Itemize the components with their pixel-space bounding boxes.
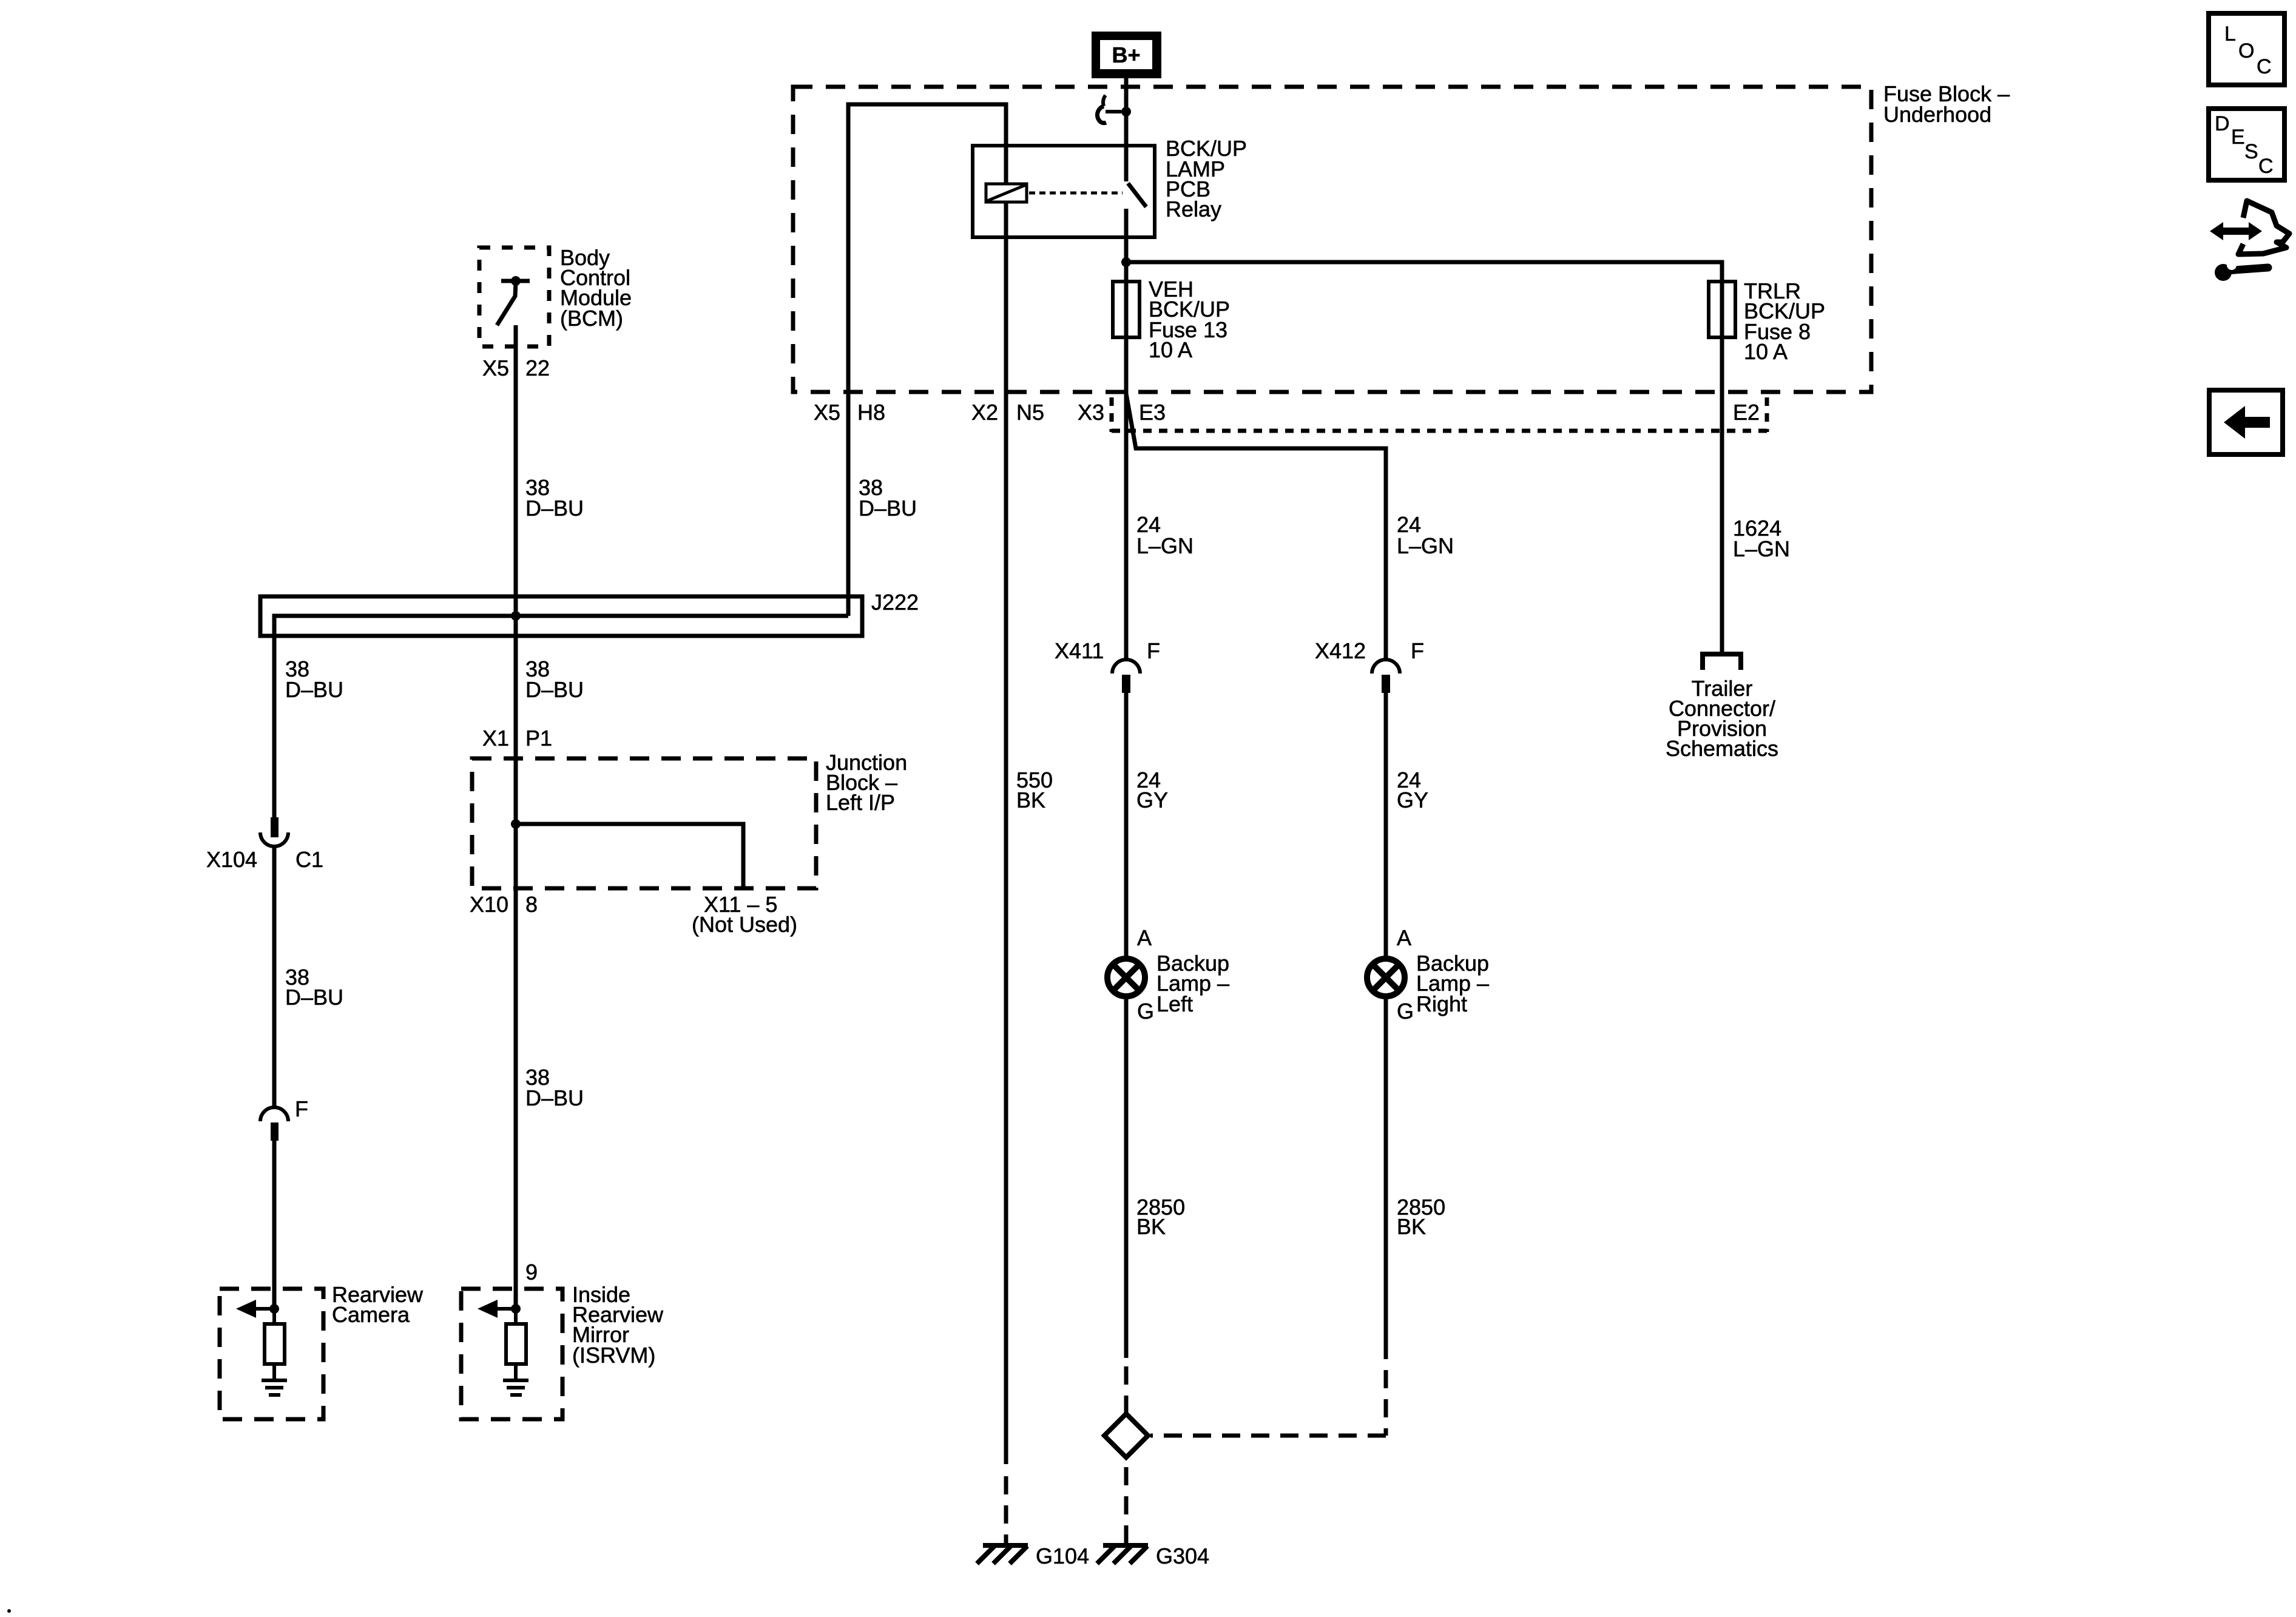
svg-text:Left: Left	[1156, 991, 1193, 1016]
svg-text:C: C	[2257, 55, 2272, 78]
junction block - left I/P dashed box	[472, 758, 816, 888]
svg-text:F: F	[1411, 638, 1424, 663]
svg-text:X5: X5	[814, 400, 840, 425]
fusible link curl	[1097, 95, 1121, 123]
svg-text:B+: B+	[1112, 42, 1140, 67]
relay linkage dashed	[1029, 192, 1123, 195]
label 2850 BK left	[1136, 1195, 1185, 1239]
dashed wire right lamp to splice	[1150, 1370, 1386, 1436]
dashed wire splice to G304	[1124, 1467, 1129, 1544]
svg-text:E3: E3	[1139, 400, 1166, 425]
svg-text:G104: G104	[1036, 1544, 1089, 1568]
wire junction to TRLR fuse	[1126, 262, 1722, 282]
label Fuse Block - Underhood	[1883, 81, 2010, 127]
svg-text:Relay: Relay	[1166, 197, 1221, 221]
label 1624 L-GN	[1733, 516, 1790, 561]
wire X104 down	[272, 846, 277, 1107]
dotted connector strip	[1112, 397, 1767, 432]
svg-text:8: 8	[525, 892, 538, 917]
svg-text:(Not Used): (Not Used)	[692, 912, 797, 937]
label 38 D-BU left branch	[285, 657, 343, 702]
svg-text:A: A	[1397, 925, 1411, 950]
relay K: BCK/UP LAMP PCB relay box	[973, 146, 1155, 237]
svg-text:GY: GY	[1136, 788, 1168, 812]
svg-text:X1: X1	[482, 726, 509, 751]
camera signal ground	[262, 1380, 287, 1395]
off-page bracket trailer	[1703, 654, 1741, 670]
svg-text:H8: H8	[857, 400, 885, 425]
BCM: body control module dashed box	[479, 248, 549, 346]
connector X104 C1	[260, 817, 288, 846]
junction dot in junction block	[511, 819, 521, 829]
label fuse 13	[1149, 277, 1230, 362]
BCM switch	[497, 276, 530, 325]
svg-text:L–GN: L–GN	[1733, 536, 1790, 561]
wire B+ down to relay	[1124, 78, 1129, 147]
svg-text:E2: E2	[1733, 400, 1760, 425]
label 38 D-BU mirror branch	[525, 1065, 584, 1110]
mirror resistor	[506, 1309, 526, 1380]
svg-text:(BCM): (BCM)	[560, 306, 623, 331]
lamp right: backup lamp - right	[1367, 959, 1405, 996]
label X1 P1	[482, 726, 552, 751]
mirror signal arrow	[478, 1300, 516, 1318]
label rearview camera	[332, 1282, 424, 1327]
battery feed B+	[1092, 32, 1161, 78]
svg-text:9: 9	[525, 1260, 538, 1284]
svg-text:L: L	[2224, 22, 2236, 46]
svg-text:D–BU: D–BU	[285, 985, 343, 1010]
junction dot at B+ node	[1121, 107, 1131, 116]
labels lamp left	[1137, 925, 1229, 1024]
relay switch common	[1124, 147, 1129, 181]
fuse F13 VEH BCK/UP	[1113, 262, 1140, 392]
svg-text:X3: X3	[1078, 400, 1104, 425]
junction dot below relay	[1121, 257, 1131, 267]
ground G304	[1097, 1545, 1148, 1564]
svg-text:BK: BK	[1136, 1214, 1166, 1239]
svg-text:BK: BK	[1016, 788, 1045, 812]
wire J222 center branch down	[514, 616, 518, 824]
svg-text:C1: C1	[295, 847, 323, 872]
label 24 L-GN left	[1136, 512, 1194, 558]
connector X412 F	[1372, 660, 1400, 693]
svg-text:O: O	[2238, 39, 2254, 62]
svg-text:E: E	[2231, 126, 2245, 149]
label X411 F	[1055, 638, 1160, 663]
connector F camera	[260, 1107, 288, 1141]
svg-text:GY: GY	[1397, 788, 1428, 812]
label X10 8	[470, 892, 538, 917]
wire F to camera box	[272, 1141, 277, 1309]
svg-text:X2: X2	[971, 400, 998, 425]
svg-text:Camera: Camera	[332, 1302, 410, 1327]
label fuse 8	[1744, 279, 1825, 364]
camera signal arrow	[236, 1300, 274, 1318]
wire left lamp down	[1124, 998, 1129, 1358]
relay switch arm	[1128, 183, 1146, 207]
svg-text:10 A: 10 A	[1149, 337, 1192, 362]
svg-text:X5: X5	[482, 356, 509, 380]
svg-text:F: F	[1147, 638, 1160, 663]
page artifact dot	[7, 1609, 11, 1613]
connector X411 F	[1112, 660, 1140, 693]
label 38 D-BU below X104	[285, 965, 343, 1010]
icon wrench	[2215, 260, 2268, 281]
svg-text:N5: N5	[1016, 400, 1044, 425]
svg-text:Right: Right	[1416, 991, 1467, 1016]
wire right lamp down	[1384, 998, 1388, 1359]
svg-text:D–BU: D–BU	[285, 677, 343, 702]
inside rearview mirror dashed box	[461, 1289, 562, 1419]
svg-text:X412: X412	[1315, 638, 1366, 663]
label ISRVM	[572, 1282, 664, 1368]
wire fuse8 to trailer connector	[1720, 337, 1724, 654]
mirror internal node dot	[511, 1304, 521, 1314]
label 24 L-GN right	[1397, 512, 1454, 558]
svg-text:X411: X411	[1055, 638, 1104, 663]
svg-text:Underhood: Underhood	[1883, 102, 1991, 127]
fuse block - underhood dashed box	[793, 87, 1871, 392]
dashed wire to splice diamond	[1124, 1366, 1129, 1414]
svg-text:Left I/P: Left I/P	[826, 790, 895, 815]
svg-text:22: 22	[525, 356, 550, 380]
dashed wire to G104	[1004, 1476, 1008, 1544]
label X104 C1	[206, 847, 323, 872]
svg-text:10 A: 10 A	[1744, 339, 1788, 364]
label X5 22	[482, 356, 550, 380]
svg-text:X10: X10	[470, 892, 508, 917]
svg-text:A: A	[1137, 925, 1152, 950]
svg-text:C: C	[2258, 155, 2274, 178]
mirror signal ground	[503, 1380, 528, 1395]
wire X411 to left lamp	[1124, 693, 1129, 957]
svg-text:BK: BK	[1397, 1214, 1426, 1239]
svg-text:D–BU: D–BU	[525, 677, 584, 702]
label X412 F	[1315, 638, 1424, 663]
wire X412 to right lamp	[1384, 693, 1388, 957]
svg-text:G: G	[1397, 999, 1414, 1024]
label BCM	[560, 245, 632, 331]
icon LOC box	[2209, 13, 2284, 85]
label 38 D-BU center branch	[525, 657, 584, 702]
wire junction block branch X11-5	[516, 824, 743, 888]
wire relay coil loop H8	[848, 104, 1006, 616]
svg-text:F: F	[295, 1096, 308, 1121]
wire BCM down to J222	[514, 325, 518, 616]
label 2850 BK right	[1397, 1195, 1445, 1239]
svg-text:X104: X104	[206, 847, 257, 872]
splice diamond	[1104, 1414, 1148, 1457]
wire 550 BK down to G104	[1004, 202, 1008, 1464]
label junction block	[826, 750, 907, 815]
svg-text:D–BU: D–BU	[525, 1085, 584, 1110]
label 550 BK	[1016, 768, 1053, 812]
label 24 GY left	[1136, 768, 1168, 812]
svg-text:L–GN: L–GN	[1136, 533, 1194, 558]
svg-text:Schematics: Schematics	[1666, 736, 1778, 761]
wire E3 straight down to X411	[1124, 337, 1129, 660]
splice pack J222 bus	[260, 596, 862, 636]
camera resistor	[265, 1309, 285, 1380]
junction dot J222	[511, 611, 521, 621]
svg-text:P1: P1	[525, 726, 552, 751]
icon DESC box	[2209, 109, 2284, 180]
label X11-5 not used	[692, 892, 797, 937]
label trailer connector	[1666, 676, 1778, 761]
relay coil	[986, 184, 1027, 202]
icon back arrow box	[2209, 390, 2283, 454]
svg-text:G304: G304	[1156, 1544, 1209, 1568]
relay switch output wire	[1124, 209, 1129, 262]
svg-text:J222: J222	[871, 590, 919, 615]
fuse F8 TRLR BCK/UP	[1709, 282, 1735, 337]
rearview camera dashed box	[220, 1289, 323, 1419]
svg-text:L–GN: L–GN	[1397, 533, 1454, 558]
wire E3 slant to right lamp branch	[1126, 394, 1386, 660]
label 38 D-BU above J222 right	[859, 475, 917, 521]
wire J222 left branch down	[272, 616, 277, 817]
svg-text:(ISRVM): (ISRVM)	[572, 1343, 655, 1368]
svg-text:D: D	[2215, 112, 2230, 135]
label 38 D-BU above J222 left	[525, 475, 584, 521]
lamp left: backup lamp - left	[1107, 959, 1145, 996]
icon hood outline	[2238, 201, 2289, 254]
label 24 GY right	[1397, 768, 1428, 812]
svg-text:D–BU: D–BU	[859, 496, 917, 521]
label relay	[1166, 136, 1247, 221]
connector pin labels under fuse block	[814, 400, 1760, 425]
svg-text:S: S	[2244, 140, 2258, 163]
camera internal node dot	[269, 1304, 279, 1314]
wire junction block down to mirror	[514, 824, 518, 1309]
svg-text:D–BU: D–BU	[525, 496, 584, 521]
icon hood double arrow	[2210, 222, 2262, 240]
svg-text:G: G	[1137, 999, 1154, 1024]
labels lamp right	[1397, 925, 1489, 1024]
ground G104	[977, 1545, 1028, 1564]
